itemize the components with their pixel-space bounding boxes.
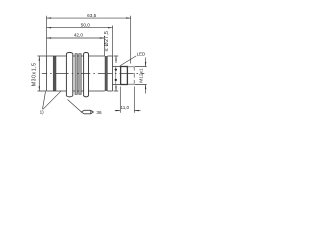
svg-text:11,0: 11,0	[120, 105, 129, 110]
LED window seam	[115, 67, 117, 85]
connector M12 thread	[127, 67, 134, 84]
centerline	[42, 73, 145, 75]
ext line right 42,0	[103, 36, 105, 56]
connector neck	[113, 67, 121, 85]
dim 63,5 line	[47, 17, 131, 19]
ext line right 63,5	[130, 16, 132, 64]
dim M30x1,5 arrowheads	[39, 56, 40, 91]
svg-text:36: 36	[96, 110, 102, 115]
dim dia 27,5 stubs	[114, 56, 119, 91]
dim 11,0 line	[115, 110, 141, 112]
dim M30x1,5 stubs	[38, 56, 47, 91]
dim 11,0 arrowheads	[116, 110, 139, 111]
LED dot top	[115, 68, 117, 70]
dim M12x1 line	[145, 58, 147, 94]
barrel top edge	[47, 55, 105, 57]
dim 42,0 line	[47, 37, 105, 39]
dim 11,0 ext lines	[120, 87, 134, 113]
footnote leader a	[43, 91, 46, 109]
svg-text:42,0: 42,0	[74, 32, 84, 37]
svg-text:LED: LED	[137, 51, 146, 56]
face chamfer band edges	[53, 56, 56, 91]
hex nut N1	[66, 52, 72, 97]
dim M30x1,5 line	[38, 56, 40, 91]
hex nut N2	[84, 52, 89, 97]
thread end band edges	[105, 56, 107, 91]
svg-text:50,0: 50,0	[81, 22, 91, 27]
svg-text:M12x1: M12x1	[139, 68, 145, 83]
svg-text:M30x1,5: M30x1,5	[31, 62, 37, 86]
LED dot bottom	[115, 79, 117, 81]
ext line right 50,0	[112, 26, 114, 57]
svg-text:63,5: 63,5	[87, 13, 97, 18]
dim 63,5 arrowheads	[47, 17, 131, 18]
dim 42,0 arrowheads	[47, 37, 105, 38]
svg-text:≤ Ø27,5: ≤ Ø27,5	[104, 31, 110, 52]
ext line left shared	[46, 16, 48, 56]
dim dia 27,5 arrowheads	[115, 56, 116, 91]
wrench hex symbol	[81, 110, 93, 114]
dim M12x1 arrowheads	[145, 62, 146, 89]
connector coupling nut	[121, 67, 128, 85]
dim 50,0 arrowheads	[47, 27, 113, 28]
washer W2	[79, 54, 81, 95]
washer W1	[75, 54, 77, 95]
LED leader	[120, 56, 136, 66]
svg-text:1): 1)	[40, 109, 45, 114]
dim dia 27,5 arrows	[115, 56, 117, 63]
face chamfer band	[53, 56, 56, 91]
rear cap	[107, 56, 112, 91]
dim 50,0 line	[47, 27, 113, 29]
barrel bottom edge	[47, 90, 105, 92]
dim M12x1 ext lines	[135, 67, 147, 85]
thread end band	[105, 56, 107, 91]
sensor face edge	[46, 56, 48, 91]
thread end edge	[133, 67, 135, 84]
wrench leader	[68, 100, 82, 112]
footnote leader b	[43, 91, 61, 109]
